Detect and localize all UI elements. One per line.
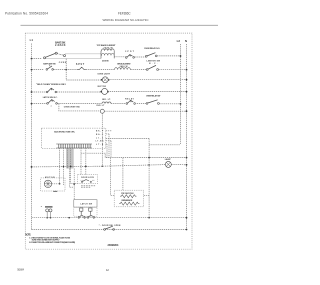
junction latch rail left <box>68 217 70 219</box>
svg-text:OVEN: OVEN <box>59 62 67 64</box>
oven sensor box <box>114 190 144 207</box>
latch switch 1 <box>78 211 85 218</box>
N bus <box>186 44 188 230</box>
svg-text:LT-BK: LT-BK <box>96 141 105 143</box>
sensor resistor 2 <box>119 202 140 205</box>
terminal strip drop 4 <box>71 148 78 183</box>
svg-text:12: 12 <box>106 268 109 272</box>
schematic outer border <box>25 33 192 249</box>
svg-text:2-RACK: 2-RACK <box>55 44 66 47</box>
junction N door rail <box>186 229 188 231</box>
wire relay to limiter <box>134 56 146 58</box>
wire R4 from L1 bus <box>32 91 47 93</box>
svg-text:LATCH SW. N.C.: LATCH SW. N.C. <box>43 96 58 99</box>
harness wire b below ribbon <box>73 169 75 200</box>
wire broil element to switch <box>130 69 146 71</box>
wiring harness ribbon <box>66 149 74 169</box>
terminal strip <box>56 144 92 148</box>
svg-text:OVEN LIGHT: OVEN LIGHT <box>97 74 110 76</box>
svg-text:WIRING DIAGRAM SC-H34A73C: WIRING DIAGRAM SC-H34A73C <box>103 18 150 22</box>
junction L1 R1 <box>31 58 33 60</box>
terminal strip drop 5 <box>80 148 82 175</box>
coil R5 <box>102 102 111 104</box>
junction N lamp rail <box>186 164 188 166</box>
terminal strip drop 6 <box>85 148 87 175</box>
sensor feed riser <box>148 139 150 219</box>
thermal cutout bar <box>45 206 53 208</box>
latch switch lower box <box>74 207 97 216</box>
svg-text:IND LT: IND LT <box>96 105 105 107</box>
long rail to N <box>81 153 187 157</box>
riser R1 to R2 <box>65 59 67 70</box>
terminal strip drop 2 <box>63 148 65 185</box>
door switch <box>104 226 115 230</box>
svg-text:OVEN SENSOR: OVEN SENSOR <box>121 200 133 202</box>
svg-text:LAMP: LAMP <box>165 158 172 161</box>
svg-text:N.C.: N.C. <box>149 63 158 65</box>
junction drop6 lamp rail <box>85 166 87 168</box>
wire motor to drop <box>52 183 60 185</box>
wire oven light rail right to N <box>108 79 186 81</box>
svg-text:OVEN RELAY N.O.: OVEN RELAY N.O. <box>144 47 160 50</box>
svg-text:MOTOR: MOTOR <box>98 86 107 88</box>
svg-text:P/N 316217002: P/N 316217002 <box>121 193 133 195</box>
SPST switch <box>78 67 86 69</box>
marks under motor box <box>53 190 57 192</box>
bake element (dual coil) <box>101 49 114 59</box>
thermal cutout contacts <box>46 209 52 212</box>
svg-text:2362942601: 2362942601 <box>108 244 120 247</box>
svg-text:LATCH SW: LATCH SW <box>80 203 92 206</box>
svg-text:3PDT: 3PDT <box>125 51 135 53</box>
door lock switch box <box>78 175 98 184</box>
lock motor <box>102 88 108 94</box>
control box stub row1 <box>106 130 112 132</box>
svg-text:OVEN VENT SW.: OVEN VENT SW. <box>64 106 81 108</box>
svg-text:FEF366C: FEF366C <box>118 11 131 15</box>
oven selector switch <box>44 52 66 59</box>
header rule <box>21 24 219 26</box>
svg-text:SURF UNIT SW: SURF UNIT SW <box>43 64 56 66</box>
harness wire a below ribbon <box>69 169 73 188</box>
control box stub row5 <box>106 143 107 145</box>
thermal limiter switch <box>145 53 157 57</box>
broil switch <box>46 65 53 71</box>
riser R2 to oven light rail <box>65 70 67 80</box>
wire bake element to relay <box>114 56 125 58</box>
wire broil switch to spst <box>53 69 78 71</box>
wire pair to bake element <box>66 53 102 55</box>
bundle riser c <box>110 141 112 158</box>
wire R2 from L1 bus <box>32 69 44 71</box>
svg-text:LT-B: LT-B <box>96 144 104 146</box>
svg-text:ELECTRONIC OVEN CTRL: ELECTRONIC OVEN CTRL <box>54 131 75 133</box>
wire to N R2 <box>159 69 187 71</box>
wire spst to broil element <box>86 69 114 71</box>
latch rail <box>32 217 187 219</box>
svg-text:OVEN RELAY SW: OVEN RELAY SW <box>146 94 160 97</box>
R5 relay switch <box>126 100 135 104</box>
terminal strip drop 3 <box>67 148 69 169</box>
junction N latch rail <box>186 217 188 219</box>
junction L2 R5 <box>180 103 182 105</box>
lamp rail <box>32 164 187 167</box>
oven light lamp <box>102 77 108 83</box>
svg-text:5/1604: 5/1604 <box>17 268 24 272</box>
latch switch assembly box <box>74 200 97 207</box>
svg-text:IND. LT.: IND. LT. <box>102 99 111 101</box>
L2 corner link <box>149 144 180 146</box>
junction TOD b <box>50 217 52 219</box>
wire R1 from L1 bus <box>32 58 43 60</box>
svg-text:*: * <box>51 106 52 109</box>
wire relay to switch R5 <box>137 103 147 105</box>
marks under switch box <box>81 186 95 187</box>
drop indicator light down <box>101 113 103 166</box>
junction N indicator <box>186 110 188 112</box>
svg-text:L2: L2 <box>177 39 181 43</box>
door rail <box>32 229 187 231</box>
control box stub row3 <box>106 138 149 140</box>
bake relay switch <box>126 55 135 59</box>
sensor resistor 1 <box>120 195 136 198</box>
wire to coil R5 <box>57 103 102 105</box>
electronic oven control box <box>41 128 105 148</box>
junction L1 lamp rail <box>31 166 33 168</box>
bundle riser b <box>108 134 110 158</box>
svg-text:Publication No. 5995432604: Publication No. 5995432604 <box>5 11 48 15</box>
junction L1 R4 <box>31 91 33 93</box>
L2 bus <box>180 44 182 145</box>
svg-text:2585W: 2585W <box>102 61 109 63</box>
broil relay switch <box>146 65 158 70</box>
svg-text:BK-P: BK-P <box>96 131 104 133</box>
svg-text:* - DOOR SW. OPEN: * - DOOR SW. OPEN <box>99 225 121 227</box>
sensor box right link <box>144 194 149 196</box>
door lock motor box <box>41 178 65 191</box>
svg-text:N: N <box>185 39 187 43</box>
terminal labels <box>96 131 105 146</box>
TOD drops <box>47 212 50 218</box>
junction L1 R5 <box>31 103 33 105</box>
svg-text:DOOR LOCK: DOOR LOCK <box>81 177 94 179</box>
svg-text:"SELF CLEAN" MODELS ONLY: "SELF CLEAN" MODELS ONLY <box>36 83 67 86</box>
wire R5 from L1 bus <box>32 103 47 105</box>
oven lamp <box>165 161 171 167</box>
svg-text:MOTOR: MOTOR <box>45 177 55 179</box>
latch switch pole 1 <box>80 208 83 211</box>
wire latch switch to motor <box>57 91 102 93</box>
drop junctions on rails <box>59 166 72 185</box>
junction N R4 <box>186 91 188 93</box>
control box stub row4 <box>106 140 111 142</box>
wire indicator to N <box>104 110 186 112</box>
junction N long rail <box>186 157 188 159</box>
L1 bus <box>31 44 33 230</box>
latch switch 2 <box>87 211 94 218</box>
control box stub row2 <box>106 133 109 135</box>
svg-text:*: * <box>41 205 42 209</box>
latch switch 2 <box>47 100 58 105</box>
junction sensor riser <box>148 157 150 159</box>
wire to L2 <box>157 55 180 57</box>
wire to L2 R5 <box>159 103 180 105</box>
svg-text:2. CONNECTOR: WR = WIRE NUT C: 2. CONNECTOR: WR = WIRE NUT CONNECTOR (W… <box>29 241 75 244</box>
wire oven light rail left <box>66 79 102 81</box>
terminal strip drop 1 <box>59 148 61 184</box>
svg-text:NOTE:: NOTE: <box>25 234 31 237</box>
wire coil to relay R5 <box>111 103 126 105</box>
bundle riser a <box>106 144 108 158</box>
junction drop lamp rail <box>102 166 103 167</box>
junction sensor riser latch rail <box>148 217 150 219</box>
door lock switch symbol <box>81 180 95 183</box>
broil element coil <box>114 68 130 70</box>
wire motor to N <box>108 91 187 93</box>
sensor box riser left <box>111 158 115 196</box>
sensor box riser mid <box>122 158 124 191</box>
door latch switch <box>46 88 56 93</box>
junction harness wire b <box>73 183 75 185</box>
latch switch pole 2 <box>89 208 92 211</box>
svg-text:SPST: SPST <box>76 64 85 66</box>
svg-text:L1-1: L1-1 <box>96 137 103 139</box>
svg-text:L1: L1 <box>30 38 34 42</box>
R5 switch 2 <box>146 100 159 105</box>
svg-text:RELAY: RELAY <box>125 97 134 100</box>
junction N R2 <box>186 69 188 71</box>
svg-text:BA-1: BA-1 <box>96 133 103 136</box>
indicator light <box>100 109 104 113</box>
drop R5 to indicator rail <box>59 104 100 111</box>
junction N light rail <box>186 79 188 81</box>
junction TOD a <box>46 217 48 219</box>
door lock motor symbol <box>44 180 51 187</box>
junction L1 R2 <box>31 69 33 71</box>
junction riser R2 <box>65 69 67 71</box>
junction L2 R1 <box>180 55 182 57</box>
